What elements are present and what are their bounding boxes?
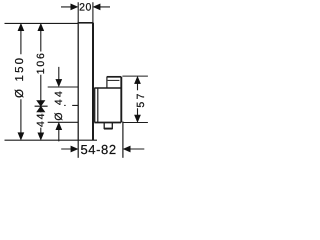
arrow down (Ø44 top) (56, 79, 62, 86)
arrow right (20 left) (71, 4, 78, 10)
dimension Ø150 line segments (20, 29, 22, 135)
20 dim extension ticks down to plate (78, 2, 93, 23)
57 dim line segments (137, 82, 139, 116)
bottom button rectangle (104, 123, 112, 129)
Ø44 bottom extension line (48, 121, 78, 123)
tick at knob axis (106/44 junction) (35, 105, 48, 107)
arrow down (Ø150 bottom) (18, 133, 24, 140)
arrow up (Ø44 bottom) (56, 123, 62, 130)
arrow up (106 top) (38, 24, 44, 31)
dimension Ø44 line segments (58, 67, 60, 141)
bottom extension line (plate bottom plane) (5, 139, 98, 141)
knob bottom edge (94, 122, 121, 124)
grip tab inner line (108, 79, 120, 81)
svg-text:106: 106 (35, 51, 47, 74)
57 top extension line (122, 75, 147, 77)
arrow up (Ø150 top) (18, 24, 24, 31)
arrow down (106 bottom, hourglass top) (37, 101, 45, 107)
svg-text:57: 57 (135, 91, 147, 107)
20 dim tails (61, 6, 110, 8)
57 bottom extension line (122, 122, 147, 124)
knob body back edge (97, 88, 99, 123)
arrow left (20 right) (93, 4, 100, 10)
svg-text:44: 44 (35, 112, 47, 127)
knob axis centerline dash-dot stubs (64, 104, 78, 106)
arrow left (54-82 right) (123, 146, 130, 152)
arrow up (57 top) (135, 77, 141, 84)
dimension 106 line segments (40, 29, 42, 102)
arrow down (57 bottom) (135, 115, 141, 122)
knob sleeve back edge (94, 88, 96, 123)
54-82 dim tails (61, 148, 144, 150)
Ø44 top extension line (48, 86, 78, 88)
arrow down (44 bottom) (38, 133, 44, 140)
top extension line (plate top plane) (5, 22, 78, 24)
plate side view rectangle (77, 23, 79, 140)
54-82 extension line wall side (77, 140, 79, 158)
arrow up (44 top, hourglass bottom) (37, 106, 45, 112)
knob top edge (94, 87, 121, 89)
svg-text:Ø 150: Ø 150 (14, 56, 26, 98)
dimension 44 line segments (40, 106, 42, 134)
knob front face (120, 77, 122, 123)
grip tab left edge (106, 77, 108, 88)
svg-text:54-82: 54-82 (80, 142, 116, 157)
svg-text:Ø 44: Ø 44 (53, 89, 65, 121)
svg-text:20: 20 (79, 2, 92, 14)
54-82 extension line front face side (122, 122, 124, 158)
grip tab top (107, 76, 122, 78)
arrow right (54-82 left) (71, 146, 78, 152)
